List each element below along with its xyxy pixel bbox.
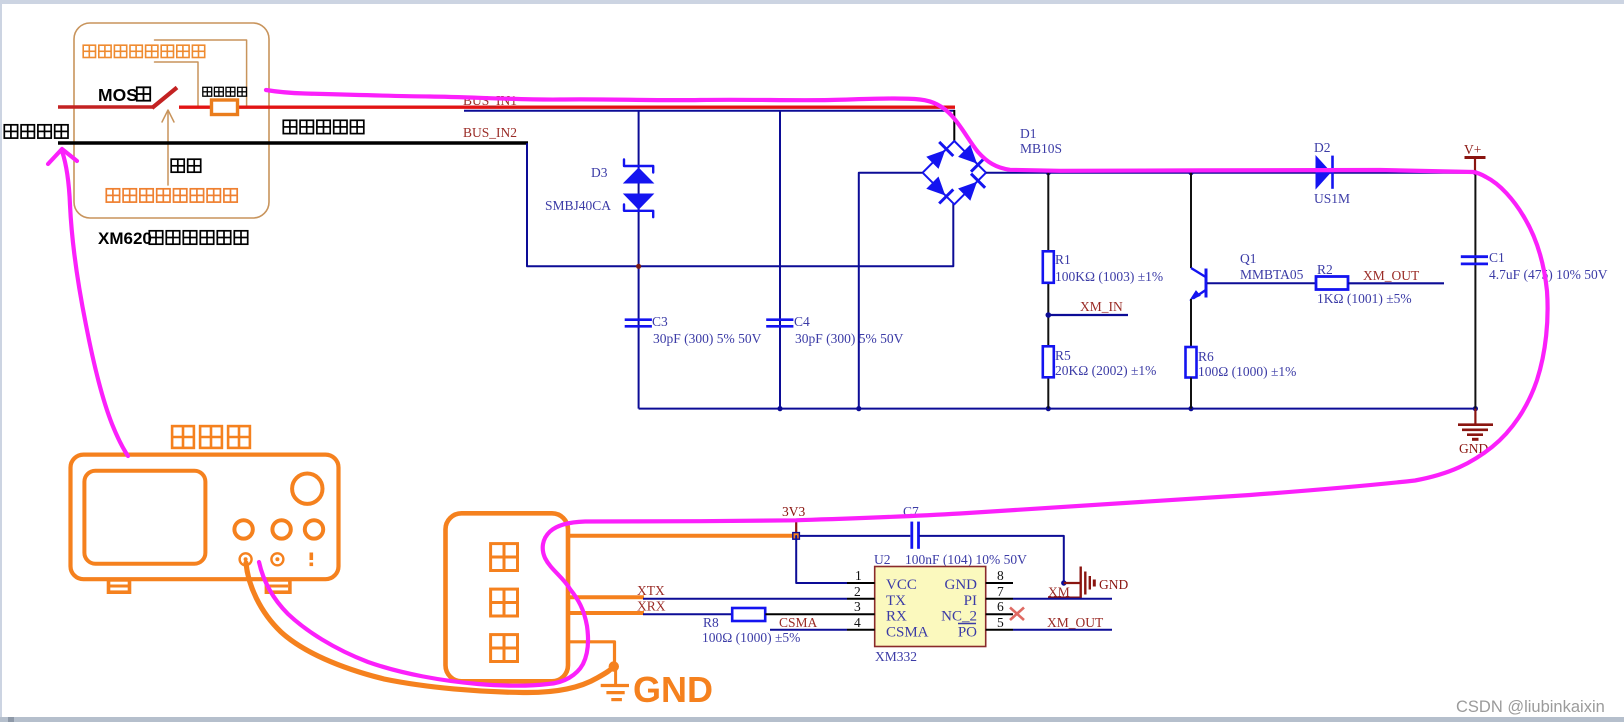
resistor R2 xyxy=(1316,277,1348,290)
svg-text:7: 7 xyxy=(997,584,1004,599)
net label XM (pin7) xyxy=(1048,585,1080,600)
svg-text:TX: TX xyxy=(886,593,906,609)
power port V+ bar xyxy=(1465,158,1486,173)
pin name PO xyxy=(958,624,977,641)
pin 4 number xyxy=(854,615,861,630)
svg-text:30pF (300) 5% 50V: 30pF (300) 5% 50V xyxy=(653,331,762,346)
junction C4 bottom xyxy=(777,406,782,411)
label C7 xyxy=(903,504,919,519)
probe ground blob xyxy=(609,661,619,671)
svg-text:Q1: Q1 xyxy=(1240,251,1257,266)
wire D3/C3 column xyxy=(638,111,640,409)
svg-text:R1: R1 xyxy=(1055,252,1071,267)
wire R1-R5 column xyxy=(1047,173,1049,409)
bridge diode upper-left xyxy=(927,142,953,168)
svg-text:CSMA: CSMA xyxy=(779,615,818,630)
capacitor C4 xyxy=(766,320,793,327)
value R2 xyxy=(1317,291,1412,306)
junction GND corner xyxy=(1473,406,1478,411)
svg-text:5: 5 xyxy=(997,615,1004,630)
pin 3 stub xyxy=(847,613,875,615)
svg-text:CSMA: CSMA xyxy=(886,625,929,641)
ground GND (orange probe) xyxy=(601,666,629,700)
wire top rail bridge to V+ xyxy=(986,172,1475,174)
svg-text:XM_OUT: XM_OUT xyxy=(1047,615,1104,630)
value C4 xyxy=(795,331,904,346)
svg-text:XTX: XTX xyxy=(637,583,665,598)
pin name TX xyxy=(886,593,906,609)
svg-text:XRX: XRX xyxy=(637,599,666,614)
annotation rounded box xyxy=(74,23,269,218)
label C4 xyxy=(794,314,810,329)
orange wire MCU to probe GND xyxy=(568,642,615,663)
svg-text:XM_OUT: XM_OUT xyxy=(1363,268,1420,283)
pin 1 number xyxy=(855,568,862,583)
svg-text:C4: C4 xyxy=(794,314,810,329)
svg-text:R2: R2 xyxy=(1317,262,1333,277)
value R5 xyxy=(1055,363,1156,378)
pin 7 stub xyxy=(986,598,1013,600)
svg-text:US1M: US1M xyxy=(1314,191,1350,206)
junction D3 bottom xyxy=(636,264,641,269)
svg-text:3V3: 3V3 xyxy=(782,504,805,519)
transistor Q1 xyxy=(1191,268,1207,300)
svg-text:1: 1 xyxy=(855,568,862,583)
svg-text:U2: U2 xyxy=(874,552,891,567)
text 下行通讯电压调制 xyxy=(106,189,237,202)
svg-text:BUS_IN2: BUS_IN2 xyxy=(463,125,517,140)
bridge diode lower-left xyxy=(927,177,953,203)
net label XM_IN xyxy=(1080,299,1123,314)
junction R6 bottom xyxy=(1188,406,1193,411)
wire BUS_IN2 corner to bridge AC2 xyxy=(527,144,953,266)
window left edge xyxy=(0,0,2,722)
junction pin8 xyxy=(1061,580,1066,585)
text 上行通讯电流检测 xyxy=(83,45,205,57)
junction bridge minus rail xyxy=(856,406,861,411)
value SMBJ40CA xyxy=(545,198,611,213)
net label BUS_IN2 xyxy=(463,125,517,140)
label D1 xyxy=(1020,126,1037,141)
magenta stroke arrow to scope xyxy=(62,151,128,456)
svg-text:30pF (300) 5% 50V: 30pF (300) 5% 50V xyxy=(795,331,904,346)
label R6 xyxy=(1198,349,1214,364)
label line to sampling resistor right terminal xyxy=(155,40,247,106)
text 采样电阻 xyxy=(203,87,247,96)
label XM332 xyxy=(875,649,917,664)
junction V+ corner xyxy=(1473,170,1478,175)
pin name VCC xyxy=(886,577,917,593)
wire R2 to XM_OUT xyxy=(1348,282,1444,284)
label R5 xyxy=(1055,348,1071,363)
svg-text:D2: D2 xyxy=(1314,140,1331,155)
svg-text:D1: D1 xyxy=(1020,126,1037,141)
resistor R6 xyxy=(1186,347,1197,378)
diode D2 xyxy=(1316,156,1333,189)
wire Q1 base to R2 xyxy=(1207,282,1316,284)
svg-text:CSDN @liubinkaixin: CSDN @liubinkaixin xyxy=(1456,698,1605,716)
svg-text:100Ω (1000) ±5%: 100Ω (1000) ±5% xyxy=(702,630,800,645)
svg-text:XM_IN: XM_IN xyxy=(1080,299,1123,314)
wire XRX to R8 xyxy=(643,613,732,615)
ground GND (bar style, pin8) xyxy=(1081,567,1095,599)
pin 1 stub xyxy=(847,582,875,584)
text 控制 xyxy=(171,159,201,172)
power port V+ text xyxy=(1464,142,1481,157)
bridge diode upper-right xyxy=(959,146,985,172)
MCU box 单片机 xyxy=(446,513,569,681)
svg-text:2: 2 xyxy=(854,584,861,599)
resistor R8 xyxy=(732,608,765,621)
no-connect pin 6 xyxy=(1010,608,1024,621)
label GND (schematic) xyxy=(1459,441,1488,456)
svg-text:C1: C1 xyxy=(1489,250,1505,265)
IC U2 XM332 body xyxy=(875,567,986,647)
junction R5 bottom xyxy=(1046,406,1051,411)
resistor R1 xyxy=(1043,251,1054,282)
wire 3V3 down to pin1 xyxy=(796,536,848,583)
wire BUS_IN1 (navy) xyxy=(464,110,955,112)
wire Q1 collector drop xyxy=(1190,173,1192,268)
wire pin7 out xyxy=(1013,598,1112,600)
wire 3V3 to C7 xyxy=(799,535,910,537)
junction R1 top xyxy=(1046,170,1051,175)
svg-text:SMBJ40CA: SMBJ40CA xyxy=(545,198,611,213)
wire C4 column xyxy=(779,111,781,409)
svg-text:R6: R6 xyxy=(1198,349,1214,364)
pin 8 number xyxy=(997,568,1004,583)
pin 5 stub xyxy=(986,629,1013,631)
svg-text:PI: PI xyxy=(964,593,977,609)
svg-text:PO: PO xyxy=(958,625,977,641)
pin name NC_2 xyxy=(941,609,977,625)
wire XTX to pin2 xyxy=(643,598,847,600)
svg-text:XM620: XM620 xyxy=(98,229,152,248)
label GND (pin8) xyxy=(1099,577,1128,592)
control arrow (tan) xyxy=(162,110,174,185)
label D2 xyxy=(1314,140,1331,155)
svg-text:GND: GND xyxy=(1099,577,1128,592)
label R8 xyxy=(703,615,719,630)
orange wire XRX xyxy=(568,611,644,615)
orange wire MCU to 3V3 xyxy=(568,534,794,538)
capacitor C7 xyxy=(912,522,919,549)
watermark CSDN xyxy=(1456,698,1605,716)
text XM620主机原理框图 xyxy=(98,229,248,248)
ground GND (schematic) xyxy=(1458,409,1493,440)
svg-text:V+: V+ xyxy=(1464,142,1481,157)
bridge diode lower-right xyxy=(959,174,985,200)
wire C7 to pin8 xyxy=(920,536,1064,583)
bridge rectifier D1 diamond xyxy=(923,141,986,204)
label D3 xyxy=(591,165,608,180)
wire R6 to rail xyxy=(1190,378,1192,409)
pin 3 number xyxy=(854,599,861,614)
label line to sampling resistor left terminal xyxy=(155,62,199,107)
orange wire XTX xyxy=(568,595,644,599)
svg-text:R8: R8 xyxy=(703,615,719,630)
pin 5 number xyxy=(997,615,1004,630)
text 电源输入 xyxy=(4,125,68,138)
net label XM_OUT (R2) xyxy=(1363,268,1420,283)
net label BUS_IN1 xyxy=(463,93,517,108)
value C7 xyxy=(905,552,1027,567)
sampling resistor (orange) xyxy=(212,100,238,115)
label C1 xyxy=(1489,250,1505,265)
value R8 xyxy=(702,630,800,645)
pin 6 stub xyxy=(986,613,1013,615)
value C3 xyxy=(653,331,762,346)
pin 4 stub xyxy=(847,629,875,631)
label U2 xyxy=(874,552,891,567)
value R6 xyxy=(1198,364,1296,379)
wire BUS_IN2 hand black xyxy=(58,141,528,145)
pin 6 number xyxy=(997,599,1004,614)
wire pin5 out xyxy=(1013,629,1112,631)
svg-text:C3: C3 xyxy=(652,314,668,329)
wire V+ to C1 xyxy=(1474,173,1476,409)
svg-text:4.7uF (475) 10% 50V: 4.7uF (475) 10% 50V xyxy=(1489,267,1608,282)
magenta probe wire (scope to MCU to V+ loop) xyxy=(259,90,1548,686)
svg-text:MOS: MOS xyxy=(98,85,138,105)
text 二总线输出 xyxy=(283,120,364,133)
wire BUS_IN1 hand red left segment xyxy=(58,105,153,109)
value US1M xyxy=(1314,191,1350,206)
svg-text:R5: R5 xyxy=(1055,348,1071,363)
net label XM_OUT (pin5) xyxy=(1047,615,1104,630)
capacitor C1 xyxy=(1461,257,1488,264)
pin 8 stub xyxy=(986,582,1013,584)
svg-text:8: 8 xyxy=(997,568,1004,583)
junction 3V3 (square) xyxy=(793,533,800,540)
text 示波器 xyxy=(172,426,250,448)
label R1 xyxy=(1055,252,1071,267)
pin name RX xyxy=(886,609,907,625)
label Q1 xyxy=(1240,251,1257,266)
pin name CSMA xyxy=(886,625,929,641)
text 单片机 (vertical) xyxy=(491,544,518,662)
text GND (orange) xyxy=(633,669,713,710)
wire bottom rail xyxy=(639,408,1476,410)
wire XM_IN xyxy=(1048,314,1128,316)
power port 3V3 text xyxy=(782,504,805,519)
capacitor C3 xyxy=(625,320,652,327)
junction Q1 top xyxy=(1188,170,1193,175)
wire bridge AC1 drop xyxy=(953,110,955,142)
svg-text:GND: GND xyxy=(633,669,713,710)
svg-text:3: 3 xyxy=(854,599,861,614)
wire Q1 emitter to R6 xyxy=(1190,299,1192,347)
svg-text:GND: GND xyxy=(945,577,978,593)
svg-text:RX: RX xyxy=(886,609,907,625)
pin name GND xyxy=(945,577,978,593)
svg-text:4: 4 xyxy=(854,615,861,630)
pin 2 stub xyxy=(847,598,875,600)
svg-text:20KΩ (2002) ±1%: 20KΩ (2002) ±1% xyxy=(1055,363,1156,378)
resistor R5 xyxy=(1043,346,1054,377)
svg-text:MMBTA05: MMBTA05 xyxy=(1240,267,1304,282)
power port 3V3 bar xyxy=(782,520,807,533)
label C3 xyxy=(652,314,668,329)
svg-text:VCC: VCC xyxy=(886,577,917,593)
magenta arrow head xyxy=(48,149,77,164)
pin 2 number xyxy=(854,584,861,599)
wire R8 to pin3 xyxy=(765,613,847,615)
probe cable (orange) xyxy=(246,563,613,693)
junction XM_IN xyxy=(1046,312,1052,318)
wire pin8 to GND bar xyxy=(1064,582,1080,584)
net label XRX xyxy=(637,599,666,614)
value C1 xyxy=(1489,267,1608,282)
wire CSMA to pin4 xyxy=(770,629,847,631)
pin name PI xyxy=(964,593,977,609)
net label CSMA xyxy=(779,615,818,630)
svg-text:D3: D3 xyxy=(591,165,608,180)
svg-text:MB10S: MB10S xyxy=(1020,141,1062,156)
value MMBTA05 xyxy=(1240,267,1304,282)
text MOS管 xyxy=(98,85,150,105)
svg-text:100Ω (1000) ±1%: 100Ω (1000) ±1% xyxy=(1198,364,1296,379)
svg-text:1KΩ (1001) ±5%: 1KΩ (1001) ±5% xyxy=(1317,291,1412,306)
svg-text:100nF (104) 10% 50V: 100nF (104) 10% 50V xyxy=(905,552,1027,567)
pin 7 number xyxy=(997,584,1004,599)
svg-text:NC_2: NC_2 xyxy=(941,609,977,625)
TVS diode D3 xyxy=(624,160,653,218)
wire BUS_IN1 hand red right segment xyxy=(179,105,955,108)
net label XTX xyxy=(637,583,665,598)
svg-text:100KΩ (1003) ±1%: 100KΩ (1003) ±1% xyxy=(1055,269,1163,284)
value MB10S xyxy=(1020,141,1062,156)
value R1 xyxy=(1055,269,1163,284)
window bottom scrollbar xyxy=(0,717,1624,722)
svg-text:6: 6 xyxy=(997,599,1004,614)
label R2 xyxy=(1317,262,1333,277)
MOS switch blade (red) xyxy=(152,88,177,109)
oscilloscope (orange) xyxy=(71,455,339,593)
wire bridge minus to bottom rail xyxy=(859,173,922,409)
svg-text:XM332: XM332 xyxy=(875,649,917,664)
window top strip xyxy=(0,0,1624,4)
